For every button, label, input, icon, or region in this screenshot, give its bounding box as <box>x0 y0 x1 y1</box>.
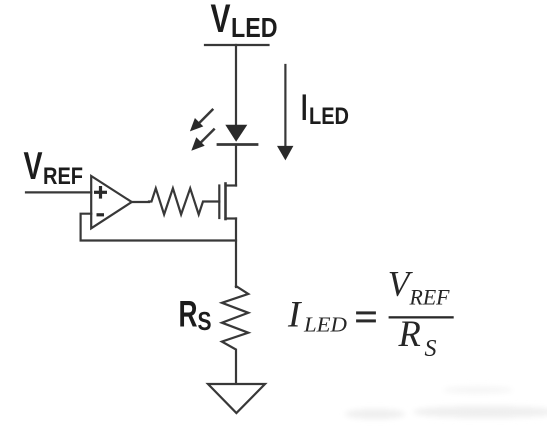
svg-text:I: I <box>301 86 308 128</box>
svg-text:LED: LED <box>303 312 347 336</box>
svg-text:LED: LED <box>309 103 349 130</box>
svg-text:I: I <box>287 295 302 336</box>
svg-text:R: R <box>179 293 198 335</box>
svg-text:S: S <box>425 336 437 362</box>
svg-text:V: V <box>211 0 231 41</box>
svg-text:REF: REF <box>409 285 451 310</box>
svg-text:LED: LED <box>231 12 278 43</box>
svg-text:R: R <box>398 313 421 354</box>
svg-text:V: V <box>24 145 43 188</box>
svg-text:REF: REF <box>43 163 83 190</box>
svg-text:S: S <box>198 308 212 336</box>
